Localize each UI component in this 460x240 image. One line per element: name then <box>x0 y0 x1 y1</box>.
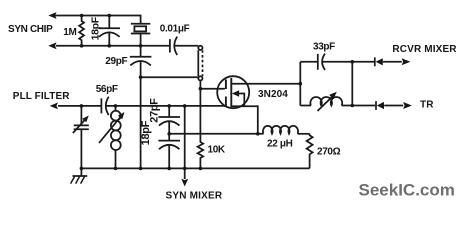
svg-text:18pF: 18pF <box>140 120 152 145</box>
svg-text:270Ω: 270Ω <box>317 147 341 158</box>
svg-text:PLL FILTER: PLL FILTER <box>13 91 70 102</box>
svg-text:3N204: 3N204 <box>258 89 288 100</box>
svg-text:RCVR MIXER: RCVR MIXER <box>392 44 457 55</box>
svg-text:29pF: 29pF <box>105 56 127 67</box>
svg-text:SYN CHIP: SYN CHIP <box>8 24 53 35</box>
svg-text:18pF: 18pF <box>90 16 102 40</box>
svg-text:10K: 10K <box>208 144 226 155</box>
svg-text:22 μH: 22 μH <box>267 139 293 150</box>
svg-text:33pF: 33pF <box>313 42 335 53</box>
svg-text:SYN MIXER: SYN MIXER <box>166 190 223 201</box>
svg-text:TR: TR <box>420 100 434 111</box>
svg-text:SeekIC.com: SeekIC.com <box>359 180 455 199</box>
svg-text:0.01μF: 0.01μF <box>160 23 190 34</box>
svg-text:27pF: 27pF <box>149 98 161 123</box>
svg-text:1M: 1M <box>63 27 76 38</box>
svg-text:56pF: 56pF <box>96 84 118 95</box>
